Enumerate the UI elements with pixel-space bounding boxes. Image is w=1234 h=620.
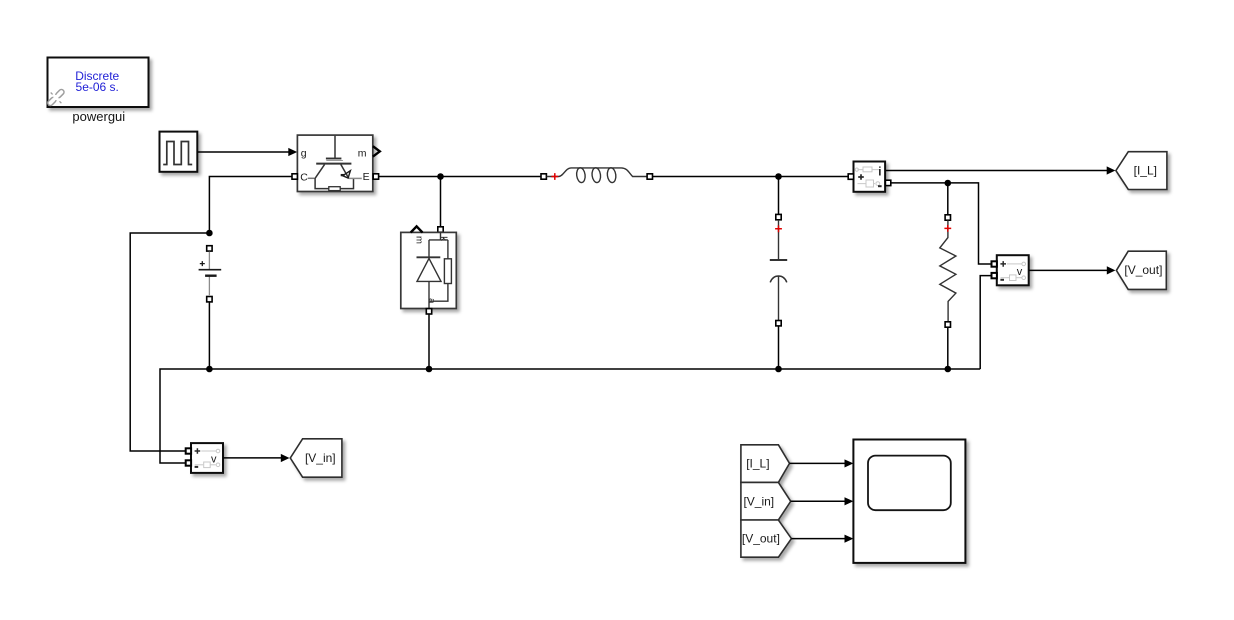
wire from tag I_L to scope <box>790 459 854 467</box>
resistor R zigzag symbol <box>940 220 956 321</box>
powergui label <box>72 109 125 124</box>
current measurement block body <box>854 162 886 192</box>
svg-text:g: g <box>301 148 307 160</box>
Vin measurement plus port square <box>186 448 191 453</box>
diode bottom port square <box>426 309 431 314</box>
node diode bottom junction <box>426 366 433 373</box>
Vout measurement minus mark <box>1000 279 1004 281</box>
DC voltage source symbol <box>199 252 222 296</box>
inductor L right port square <box>647 174 652 179</box>
Vout measurement minus port square <box>992 273 997 278</box>
Vout measurement plus mark <box>1000 261 1006 267</box>
svg-text:5e-06 s.: 5e-06 s. <box>76 80 119 94</box>
diode internal symbol <box>417 232 452 308</box>
node diode top junction <box>437 173 444 180</box>
current measurement left port square <box>848 174 853 179</box>
svg-text:[V_in]: [V_in] <box>743 494 774 508</box>
scope screen <box>868 456 951 511</box>
wire inductor to current measurement <box>651 176 849 178</box>
IGBT port label C <box>300 172 308 184</box>
wire bottom rail to Vout measurement minus <box>980 276 991 369</box>
wire rail to diode cathode <box>440 177 442 227</box>
resistor polarity plus mark <box>944 225 951 232</box>
wire IGBT collector to battery plus <box>209 177 291 234</box>
IGBT internal symbol <box>308 136 362 191</box>
goto tag V_out <box>1116 251 1166 289</box>
capacitor C bottom port square <box>776 321 781 326</box>
wire main top rail IGBT emitter to inductor <box>379 176 543 178</box>
inductor L coil symbol <box>547 167 647 183</box>
current measurement internal icon <box>855 167 879 187</box>
current measurement right minus port square <box>885 180 890 185</box>
wire from tag V_in to scope <box>791 497 854 505</box>
wire battery plus to Vin measurement plus <box>130 233 209 451</box>
svg-text:m: m <box>414 236 425 244</box>
diode label m (rotated) <box>414 236 425 244</box>
diode label k (rotated) <box>438 236 449 241</box>
wire pulse generator to IGBT gate <box>198 148 298 156</box>
wire rail to capacitor top <box>778 177 780 215</box>
from tag V_in <box>741 482 791 520</box>
from tag V_out <box>741 520 792 557</box>
wire diode anode to bottom rail <box>428 314 430 369</box>
inductor L left port square <box>541 174 546 179</box>
DC voltage source bottom port <box>207 297 212 302</box>
scope block body <box>853 440 965 563</box>
node battery plus junction <box>206 230 213 237</box>
Vin measurement plus mark <box>195 448 201 454</box>
Vout measurement label v <box>1017 266 1023 278</box>
svg-text:[V_in]: [V_in] <box>305 451 336 465</box>
powergui broken-link gap <box>53 95 58 100</box>
svg-text:v: v <box>211 453 217 465</box>
IGBT port label g <box>301 148 307 160</box>
wire Vin measurement to V_in goto <box>223 454 289 462</box>
diode label a (rotated) <box>426 298 437 304</box>
resistor R bottom port square <box>945 322 950 327</box>
IGBT port label m <box>358 148 367 160</box>
diode top port square <box>438 227 443 232</box>
Vin measurement label v <box>211 453 217 465</box>
Vin measurement minus mark <box>195 466 199 468</box>
node resistor top junction <box>945 180 952 187</box>
wire minus line to resistor top <box>947 183 949 215</box>
wire Vout measurement to V_out goto <box>1029 266 1116 274</box>
IGBT emitter arrow <box>341 171 351 178</box>
current measurement label i <box>878 166 881 178</box>
from tag I_L <box>741 445 790 483</box>
powergui block <box>48 58 149 108</box>
pulse generator block <box>160 132 198 172</box>
svg-text:[V_out]: [V_out] <box>742 532 780 546</box>
Vout voltage measurement block body <box>997 255 1029 285</box>
IGBT block body <box>297 135 372 191</box>
inductor polarity plus mark <box>551 173 558 180</box>
goto tag I_L <box>1116 152 1167 190</box>
diode m output chevron <box>411 226 423 232</box>
wire from tag V_out to scope <box>791 535 853 543</box>
node capacitor top junction <box>775 173 782 180</box>
DC voltage source top port <box>207 246 212 251</box>
wire capacitor bottom to rail <box>778 326 780 369</box>
wire battery minus to bottom rail <box>208 302 210 369</box>
capacitor polarity plus mark <box>775 225 782 232</box>
capacitor C symbol <box>770 220 787 320</box>
wire bottom ground rail <box>160 369 980 463</box>
Vin voltage measurement block body <box>191 443 223 473</box>
wire resistor bottom to rail <box>947 327 949 369</box>
IGBT C port square <box>292 174 297 179</box>
current measurement minus mark <box>878 185 882 187</box>
Vin measurement internal icon <box>195 449 220 467</box>
node resistor bottom junction <box>945 366 952 373</box>
wire current measurement output to I_L goto <box>886 166 1116 174</box>
Vin measurement minus port square <box>186 460 191 465</box>
diode D1 block body <box>401 232 457 308</box>
node capacitor bottom junction <box>775 366 782 373</box>
capacitor C top port square <box>776 214 781 219</box>
wire current measurement minus to load <box>891 183 991 264</box>
svg-text:E: E <box>363 171 370 183</box>
Vout measurement plus port square <box>992 261 997 266</box>
IGBT port label E <box>363 171 370 183</box>
svg-text:powergui: powergui <box>72 109 125 124</box>
svg-text:i: i <box>878 166 881 178</box>
node battery bottom junction <box>206 366 213 373</box>
powergui broken-link icon <box>47 88 65 106</box>
svg-text:m: m <box>358 148 367 160</box>
svg-text:[V_out]: [V_out] <box>1124 263 1162 277</box>
svg-text:[I_L]: [I_L] <box>746 457 769 471</box>
current measurement plus mark <box>858 174 864 180</box>
resistor R top port square <box>945 215 950 220</box>
svg-text:v: v <box>1017 266 1023 278</box>
Vout measurement internal icon <box>1001 262 1026 280</box>
goto tag V_in <box>290 439 342 477</box>
svg-text:[I_L]: [I_L] <box>1134 163 1157 177</box>
svg-text:C: C <box>300 172 308 184</box>
IGBT E port square <box>373 174 378 179</box>
IGBT m output chevron <box>373 146 380 156</box>
